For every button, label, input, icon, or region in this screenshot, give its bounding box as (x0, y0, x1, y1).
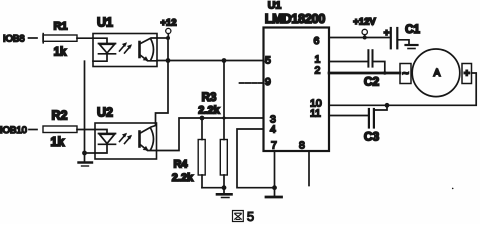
svg-text:+12V: +12V (353, 17, 376, 28)
capacitor C1 (384, 24, 421, 48)
pin 10 label (310, 98, 322, 110)
svg-text:R3: R3 (202, 92, 217, 104)
pin 8 label (299, 140, 305, 152)
junction dot C3 top (385, 103, 390, 108)
wire IOB8 to R1 (29, 37, 38, 39)
power terminal +12V (353, 17, 376, 38)
svg-text:+12: +12 (160, 18, 176, 29)
svg-text:C3: C3 (364, 130, 380, 144)
ground pin 7 (266, 188, 282, 197)
junction dot collector +12 (166, 36, 170, 40)
pin 6 label (314, 35, 320, 47)
wire U1 emitter to pin5 (157, 60, 264, 62)
wire pin 4 to ground rail (237, 129, 275, 188)
capacitor C3 (364, 109, 380, 144)
node IOB10 input label (0, 125, 27, 136)
node IOB8 input label (3, 34, 25, 45)
junction dot +12V (363, 36, 367, 40)
light arrows U2 (120, 133, 133, 144)
phototransistor Q1 inside U1 (140, 38, 158, 61)
svg-text:IOB8: IOB8 (3, 34, 25, 45)
wire C1 to ground (398, 40, 409, 45)
junction dot emitter line (166, 58, 171, 63)
junction blob R3 crossing (222, 116, 225, 119)
svg-text:C1: C1 (405, 24, 420, 36)
wire R2 to U2 (77, 129, 95, 131)
svg-text:4: 4 (270, 124, 276, 136)
junction dot C2 pin2 (383, 71, 387, 75)
svg-text:A: A (434, 68, 441, 79)
resistor R1 (43, 21, 77, 59)
junction dot R4 top (200, 116, 205, 121)
svg-text:6: 6 (314, 35, 320, 47)
svg-text:R2: R2 (52, 109, 68, 123)
optocoupler U2 (95, 106, 157, 160)
wire pin 1 to C2 (329, 61, 368, 63)
wire pin 9 stub (240, 82, 264, 84)
wire pin 2 to motor (329, 72, 400, 75)
svg-text:LMD18200: LMD18200 (265, 12, 325, 26)
wire +12 down to U2 collector (156, 38, 169, 123)
wire pin 8 down (308, 151, 310, 186)
ground left (79, 153, 93, 166)
svg-text:1k: 1k (51, 135, 65, 149)
wire motor return (387, 73, 476, 105)
pin 2 label (315, 65, 321, 77)
wire pin 11 to C3 (329, 115, 368, 117)
junction dot pin7 ground (272, 185, 277, 190)
wire U2 emitter to pin3 (157, 118, 264, 151)
power terminal +12 (160, 18, 176, 39)
pin 7 label (271, 140, 277, 152)
svg-text:+: + (384, 28, 390, 39)
svg-text:2.2k: 2.2k (172, 172, 194, 184)
capacitor C2 (364, 50, 380, 88)
LED D1 inside U1 (93, 38, 116, 61)
svg-text:R4: R4 (173, 159, 188, 171)
ground C1 (406, 45, 418, 49)
wire pin 7 down (274, 151, 276, 188)
resistor R4 (172, 118, 205, 188)
op-amp U1 LMD18200 IC box (264, 0, 330, 151)
phototransistor Q2 inside U2 (140, 123, 157, 151)
wire C2 to pin2 line (374, 62, 385, 74)
svg-text:C2: C2 (364, 75, 380, 89)
svg-text:11: 11 (310, 108, 321, 120)
svg-text:8: 8 (299, 140, 305, 152)
svg-text:5: 5 (247, 209, 254, 224)
svg-text:R1: R1 (53, 21, 67, 33)
svg-text:IOB10: IOB10 (0, 125, 27, 136)
svg-text:U1: U1 (268, 0, 282, 12)
resistor R2 (43, 109, 77, 150)
svg-text:9: 9 (265, 76, 271, 88)
resistor R3 (198, 61, 227, 188)
svg-text:U2: U2 (97, 106, 113, 120)
wire U1 LED cathode down (84, 61, 86, 153)
wire U2 LED cathode to ground bus (85, 152, 96, 154)
pin 5 label (265, 55, 271, 67)
svg-text:+: + (464, 69, 470, 80)
motor M1 (400, 49, 472, 97)
junction dot cathode bus (82, 151, 87, 156)
junction dot R3 bottom (222, 185, 227, 190)
ground R3 R4 (217, 188, 232, 198)
pin 1 label (315, 54, 321, 66)
pin 4 label (270, 124, 276, 136)
LED D2 inside U2 (95, 130, 116, 154)
wire R1 to U1 (77, 37, 93, 39)
svg-text:5: 5 (265, 55, 271, 67)
svg-text:2: 2 (315, 65, 321, 77)
junction dot R3 top (222, 58, 227, 63)
caption figure 5 (233, 209, 255, 224)
svg-text:1k: 1k (54, 47, 67, 59)
light arrows U1 (120, 42, 133, 53)
svg-text:2.2k: 2.2k (198, 105, 220, 117)
wire U1 collector to +12 line (157, 37, 168, 39)
svg-text:U1: U1 (97, 16, 113, 30)
svg-text:~: ~ (402, 68, 409, 80)
wire pin 10 (329, 104, 387, 106)
stray speck (452, 188, 454, 190)
svg-text:7: 7 (271, 140, 277, 152)
wire C3 to pin10 line (375, 105, 387, 110)
pin 3 label (270, 114, 276, 126)
pin 9 label (265, 76, 271, 88)
wire IOB10 to R2 (29, 129, 37, 131)
pin 11 label (310, 108, 321, 120)
optocoupler U1 (93, 16, 157, 67)
wire R4 R3 bottom rail (202, 187, 224, 189)
wire pin 6 to +12V (329, 37, 390, 39)
